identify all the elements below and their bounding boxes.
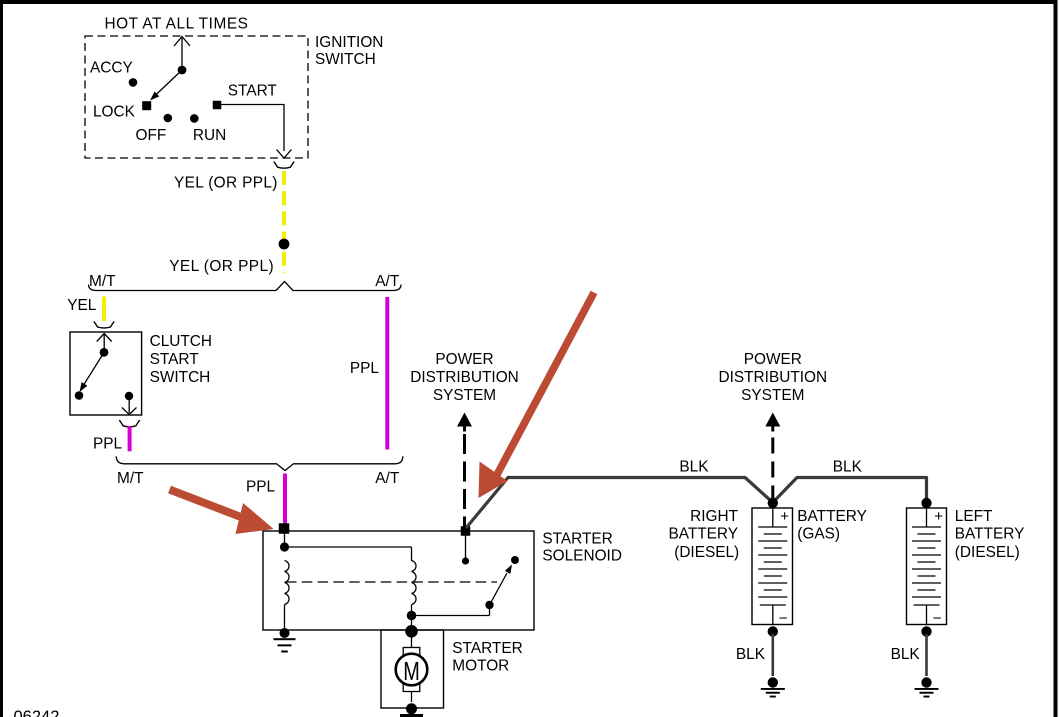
- svg-text:(GAS): (GAS): [797, 526, 840, 543]
- svg-text:−: −: [779, 610, 788, 627]
- svg-text:+: +: [934, 508, 943, 525]
- svg-text:BATTERY: BATTERY: [955, 526, 1025, 543]
- svg-text:BLK: BLK: [891, 646, 921, 663]
- svg-text:LOCK: LOCK: [93, 104, 136, 121]
- svg-text:HOT AT ALL TIMES: HOT AT ALL TIMES: [105, 15, 249, 32]
- svg-text:+: +: [780, 508, 789, 525]
- svg-text:SWITCH: SWITCH: [315, 51, 376, 68]
- svg-text:DISTRIBUTION: DISTRIBUTION: [719, 369, 828, 386]
- svg-text:A/T: A/T: [375, 470, 400, 487]
- svg-text:(DIESEL): (DIESEL): [674, 544, 739, 561]
- svg-text:SYSTEM: SYSTEM: [741, 387, 804, 404]
- svg-text:PPL: PPL: [246, 479, 276, 496]
- svg-text:BLK: BLK: [679, 459, 709, 476]
- svg-text:START: START: [150, 351, 200, 368]
- svg-text:IGNITION: IGNITION: [315, 34, 383, 51]
- svg-text:CLUTCH: CLUTCH: [150, 333, 212, 350]
- svg-text:06242: 06242: [14, 708, 60, 717]
- svg-text:SWITCH: SWITCH: [150, 369, 211, 386]
- svg-text:RUN: RUN: [193, 127, 226, 144]
- svg-text:POWER: POWER: [744, 351, 802, 368]
- svg-text:BATTERY: BATTERY: [797, 508, 867, 525]
- svg-text:BLK: BLK: [736, 646, 766, 663]
- svg-text:YEL (OR PPL): YEL (OR PPL): [169, 258, 274, 275]
- svg-text:YEL (OR PPL): YEL (OR PPL): [174, 175, 278, 192]
- svg-text:M/T: M/T: [89, 273, 116, 290]
- svg-text:STARTER: STARTER: [542, 530, 612, 547]
- svg-text:−: −: [933, 610, 942, 627]
- svg-text:ACCY: ACCY: [90, 60, 133, 77]
- svg-text:DISTRIBUTION: DISTRIBUTION: [410, 369, 519, 386]
- svg-text:BATTERY: BATTERY: [668, 526, 738, 543]
- svg-text:PPL: PPL: [93, 436, 123, 453]
- svg-text:OFF: OFF: [136, 127, 167, 144]
- svg-text:M: M: [403, 657, 420, 686]
- svg-text:PPL: PPL: [350, 360, 380, 377]
- svg-text:MOTOR: MOTOR: [452, 658, 509, 675]
- svg-text:START: START: [228, 83, 278, 100]
- svg-text:BLK: BLK: [833, 459, 863, 476]
- svg-text:SYSTEM: SYSTEM: [433, 387, 496, 404]
- svg-text:LEFT: LEFT: [955, 508, 993, 525]
- svg-text:STARTER: STARTER: [452, 640, 522, 657]
- svg-text:RIGHT: RIGHT: [690, 508, 738, 525]
- svg-text:SOLENOID: SOLENOID: [542, 547, 622, 564]
- svg-text:M/T: M/T: [117, 470, 144, 487]
- svg-text:YEL: YEL: [67, 297, 97, 314]
- svg-text:POWER: POWER: [435, 351, 493, 368]
- svg-text:A/T: A/T: [375, 273, 400, 290]
- svg-text:(DIESEL): (DIESEL): [955, 544, 1020, 561]
